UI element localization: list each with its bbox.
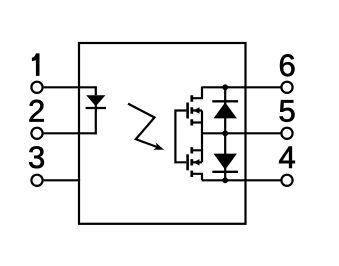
pin label 1 bbox=[32, 53, 40, 76]
IC package outline bbox=[79, 43, 246, 224]
terminal pin 5 bbox=[281, 128, 292, 139]
pin label 3 bbox=[29, 146, 44, 168]
junction middle rail / diodes bbox=[222, 130, 228, 136]
wire bottom rail (drain Q2 / diode D3 / pin 4) bbox=[202, 179, 282, 181]
terminal pin 3 bbox=[31, 175, 42, 186]
wire pin 2 to LED cathode bbox=[44, 132, 96, 134]
gate bus wire bbox=[175, 111, 186, 163]
protection diode D2 (top) bbox=[212, 87, 238, 133]
terminal pin 6 bbox=[281, 82, 292, 93]
junction top rail / D2 bbox=[222, 84, 228, 90]
pin label 6 bbox=[280, 54, 294, 76]
pin label 5 bbox=[280, 100, 295, 122]
wire top rail (drain Q1 / diode D2 / pin 6) bbox=[202, 86, 282, 88]
pin label 2 bbox=[30, 100, 44, 122]
MOSFET Q1 (top) bbox=[188, 87, 202, 134]
terminal pin 2 bbox=[31, 128, 42, 139]
LED D1 bbox=[86, 86, 106, 134]
MOSFET Q2 (bottom) bbox=[188, 133, 202, 180]
terminal pin 1 bbox=[31, 82, 42, 93]
terminal pin 4 bbox=[281, 175, 292, 186]
protection diode D3 (bottom) bbox=[212, 133, 238, 180]
junction bottom rail / D3 bbox=[222, 177, 228, 183]
wire pin 3 stub bbox=[44, 179, 81, 181]
wire middle rail (sources / diodes / pin 5) bbox=[202, 132, 281, 134]
pin label 4 bbox=[279, 147, 295, 168]
wire pin 1 to LED anode bbox=[44, 86, 96, 88]
light arrow (LED emission zigzag) bbox=[128, 104, 164, 150]
